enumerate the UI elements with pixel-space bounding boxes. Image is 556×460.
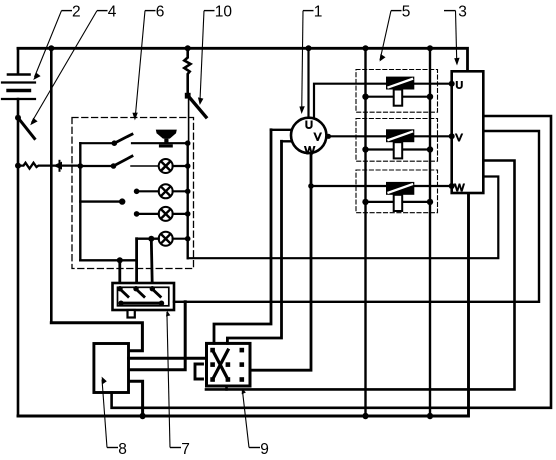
- switch row2 node: [111, 163, 117, 169]
- label 4 leader: [97, 10, 108, 12]
- wire row3 right: [173, 190, 188, 192]
- svg-text:4: 4: [108, 3, 117, 20]
- svg-text:5: 5: [402, 3, 411, 20]
- node row2 bus: [78, 163, 84, 169]
- node selector stub: [119, 198, 125, 204]
- svg-text:8: 8: [118, 441, 127, 458]
- wire row4: [137, 213, 159, 215]
- node terminal W: [449, 183, 455, 189]
- wire relay 9 to motor brush a: [214, 130, 271, 344]
- node row5 right: [185, 236, 191, 242]
- svg-text:U: U: [305, 120, 313, 132]
- wire row3: [137, 190, 159, 192]
- wire row1 right: [132, 142, 188, 144]
- svg-text:9: 9: [260, 441, 269, 458]
- wire selector stub: [80, 200, 122, 202]
- sensor unit 1 dashed box: [356, 70, 438, 113]
- switch 7 contact c: [150, 286, 155, 291]
- wire row5 right: [173, 238, 188, 240]
- wire switch 10 to lamp panel: [188, 96, 190, 143]
- node row3 right: [185, 189, 191, 195]
- switch row1 blade: [114, 134, 132, 143]
- node row4 right: [185, 211, 191, 217]
- wire row2 to lamp: [131, 165, 159, 167]
- wire motor brush b stub: [282, 140, 293, 142]
- wire row4 right: [173, 213, 188, 215]
- fuse wiggle of switch 10: [184, 48, 190, 92]
- relay 9 cross contacts: [213, 350, 229, 380]
- node bottom bus at bus5L: [362, 413, 368, 419]
- label 7 leader: [170, 447, 181, 449]
- lamp panel 6 dashed box: [72, 118, 194, 269]
- sensor unit 2 dashed box: [356, 119, 438, 162]
- label 5 leader: [391, 10, 402, 12]
- node W junction: [308, 183, 314, 189]
- svg-text:2: 2: [72, 3, 81, 20]
- wire panel out to converter right loop: [188, 177, 499, 259]
- wire panel bottom rail: [80, 259, 136, 261]
- node left bus top: [48, 45, 54, 51]
- connector bracket at relay 9: [195, 364, 203, 379]
- arrow tip label 10: [198, 97, 204, 105]
- ignition switch 7 body: [113, 283, 175, 310]
- label 9 leader: [249, 447, 260, 449]
- switch 7 contact a: [117, 286, 122, 291]
- wire left bus to controller box 8: [51, 323, 142, 351]
- switch 10 hinge node: [185, 93, 191, 99]
- label 8 leader: [107, 447, 118, 449]
- sensor unit 1 element: [394, 90, 403, 106]
- battery bus left edge: [17, 99, 20, 416]
- wire lamp panel right bus: [186, 143, 188, 258]
- switch 10 chain from top bus: [185, 45, 191, 51]
- switch 7 common bar: [121, 302, 162, 305]
- wire box 8 to bottom bus: [129, 381, 143, 416]
- arrow tip label 9: [242, 388, 246, 394]
- bus 5 right vertical: [429, 48, 431, 416]
- wire box 8 to relay 9: [129, 357, 207, 360]
- label 6 leader: [145, 10, 156, 12]
- battery E top lead: [17, 48, 20, 74]
- arrow tip label 8: [102, 377, 107, 385]
- wire left bus down: [50, 48, 53, 322]
- switch 7 key tab: [128, 310, 135, 318]
- sensor unit 1 body: [386, 77, 414, 90]
- switch 4 node: [15, 115, 21, 121]
- sensor unit 3 dashed box: [356, 170, 438, 213]
- horn SP: [156, 130, 177, 146]
- node bottom rail: [117, 257, 123, 263]
- label 2 leader: [62, 10, 73, 12]
- connector arrow on feed wire: [53, 162, 62, 170]
- switch 4 blade: [18, 118, 35, 139]
- svg-text:10: 10: [215, 3, 233, 20]
- arrow tip label 5: [380, 54, 386, 62]
- sensor unit 2 tap line: [366, 148, 431, 150]
- svg-text:W: W: [455, 182, 465, 194]
- wire box 8 bottom loop to converter: [112, 116, 551, 408]
- wire motor top to bus: [307, 48, 309, 120]
- switch 7 inner frame: [118, 287, 169, 306]
- arrow tip label 2: [33, 73, 40, 80]
- wire motor brush a stub: [271, 129, 292, 131]
- arrow tip label 1: [299, 106, 304, 114]
- svg-text:6: 6: [156, 3, 165, 20]
- node row3 left: [134, 189, 140, 195]
- relay 9 body: [207, 343, 251, 386]
- sensor unit 1 tap line: [366, 96, 431, 98]
- svg-text:U: U: [456, 80, 464, 92]
- svg-text:3: 3: [458, 3, 467, 20]
- relay 9 contact pads: [210, 348, 244, 382]
- svg-text:1: 1: [314, 3, 323, 20]
- arrow tip label 7: [166, 311, 170, 317]
- switch 10 blade: [190, 98, 207, 118]
- sensor unit 2 element: [394, 142, 403, 158]
- wire row2: [80, 165, 113, 167]
- wire phase W: [311, 185, 452, 187]
- node row5: [148, 236, 154, 242]
- wire phase V: [326, 135, 451, 137]
- lamp HL4: [159, 232, 173, 246]
- wire relay 9 bottom loop to converter: [225, 386, 228, 389]
- switch 7 contact b: [133, 286, 138, 291]
- sensor unit 3 tap line: [366, 201, 431, 203]
- converter 3 body: [452, 71, 484, 193]
- lamp HL1: [159, 159, 173, 173]
- lamp HL3: [159, 207, 173, 221]
- generator 1: [291, 118, 326, 153]
- wire panel to switch 7 pin3: [151, 239, 152, 288]
- svg-text:V: V: [456, 132, 463, 144]
- wire panel to switch 7 pin1: [118, 260, 121, 288]
- sensor unit 2 body: [386, 129, 414, 142]
- node row2 right: [185, 163, 191, 169]
- wire phase U: [314, 84, 452, 120]
- node battery-feed junction: [15, 163, 21, 169]
- svg-text:7: 7: [181, 441, 190, 458]
- wire panel to switch 7 pin2: [135, 239, 138, 288]
- wire row2 right: [173, 165, 188, 167]
- wire row1 left: [80, 142, 114, 144]
- node row1 right: [185, 140, 191, 146]
- label 3 leader: [444, 10, 456, 12]
- wire lamp panel left bus: [79, 143, 81, 260]
- sensor unit 3 element: [394, 195, 403, 211]
- wire bottom bus: [18, 193, 469, 416]
- wire relay 9 to motor brush b: [227, 141, 281, 343]
- wire branch to controller 8: [129, 302, 185, 370]
- bus 5 left vertical: [364, 48, 366, 416]
- node bottom bus left: [139, 413, 145, 419]
- label 10 leader: [204, 10, 215, 12]
- controller box 8: [94, 344, 129, 393]
- arrow tip label 6: [132, 113, 137, 121]
- switch row1 node: [112, 140, 118, 146]
- wire relay 9 right to motor W lead: [250, 153, 311, 370]
- leaders and labels: [32, 11, 457, 448]
- wire top bus to converter box: [18, 48, 468, 71]
- node bottom bus at bus5R: [427, 413, 433, 419]
- arrow tip label 3: [454, 58, 459, 66]
- node row4 left: [134, 211, 140, 217]
- svg-text:W: W: [305, 145, 316, 157]
- node terminal V: [449, 133, 455, 139]
- lamp HL2: [159, 184, 173, 198]
- switch row2 blade: [114, 156, 133, 166]
- wire feed with S-jog to lamp panel: [18, 163, 80, 169]
- svg-text:V: V: [314, 131, 322, 143]
- arrow tip label 4: [30, 118, 37, 125]
- battery E plates: [2, 75, 35, 100]
- label 1 leader: [303, 10, 314, 12]
- node terminal U: [449, 81, 455, 87]
- wire row5: [137, 237, 159, 239]
- wire switch 7 to converter right loop: [174, 131, 539, 302]
- sensor unit 3 body: [386, 182, 414, 195]
